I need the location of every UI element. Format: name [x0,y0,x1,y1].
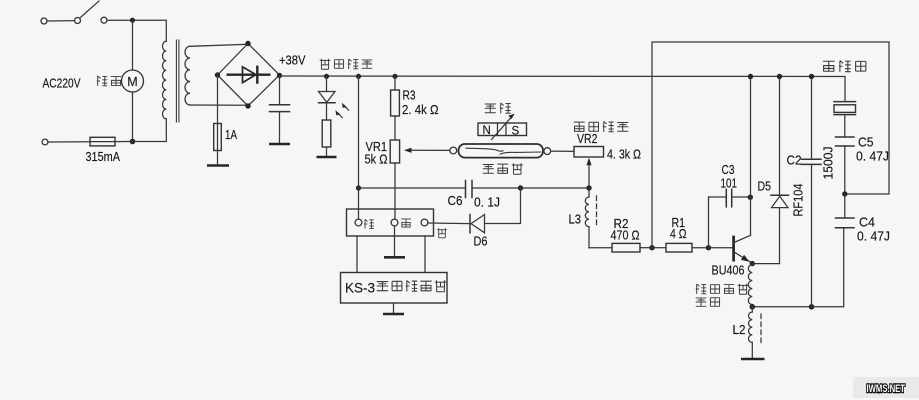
label 315mA [86,149,121,164]
node bridge left [215,72,220,77]
svg-text:1A: 1A [225,127,237,142]
label 红 [364,219,374,228]
wire secondary top to bridge [190,44,248,46]
switch S1 terminal left [41,18,47,24]
wire secondary bottom to bridge [190,104,248,106]
terminal yellow [391,219,398,226]
capacitor C4 [836,194,855,228]
label AC220V [43,76,81,91]
wire fan top [132,20,134,70]
connector block [347,209,434,236]
node C2 bottom [809,304,815,310]
resistor R3 [391,76,400,140]
core L2 dashed [760,314,762,344]
svg-text:IWMS.NET: IWMS.NET [867,383,906,395]
node coil tap [750,304,756,310]
wire bias line [359,187,466,189]
label D6 [474,234,488,249]
label 1A [225,127,237,142]
resistor LED series [322,103,331,157]
svg-text:L2: L2 [733,322,746,337]
ground fuse1A [207,164,229,167]
node emitter [750,261,755,266]
inductor L2 [749,307,753,359]
node C2 rail [809,74,814,79]
label 电源指示 [320,59,373,70]
reed switch body [459,144,544,158]
wire red to KS-3 [356,236,358,273]
label VR1 value [365,152,388,167]
transformer T1 secondary [185,46,190,105]
label R3 [403,88,416,103]
svg-text:KS-3: KS-3 [345,280,375,296]
label D5 [758,179,772,194]
reed switch lead left [450,147,457,154]
core L3 dashed [596,196,598,227]
label KS-3 [345,280,446,296]
switch S1 terminal right [101,17,107,23]
wire to transformer bottom [133,119,167,142]
label C3 [722,162,735,177]
transformer T1 primary [163,41,167,119]
wire L3 to R2 [589,247,612,249]
node base-C3 [706,245,733,250]
label R2 [614,216,629,231]
label 线圈 [696,298,720,307]
label 风扇 [97,76,122,86]
node C3-collector [748,195,753,200]
svg-text:C6: C6 [448,193,463,208]
diode inside bridge [227,66,271,84]
svg-text:VR2: VR2 [577,131,598,146]
wire feedback riser [652,42,889,248]
ground LED [317,156,337,159]
node +38V output [277,73,282,78]
label C3 value [721,176,738,191]
svg-text:N: N [483,125,491,137]
svg-text:L3: L3 [569,212,582,227]
capacitor C3 [709,189,751,247]
ground KS-3 [383,303,404,314]
potentiometer VR2 [574,147,604,189]
wire yellow to ground [394,226,396,257]
KS-3 temperature controller box [341,273,448,304]
label R1 value [670,226,687,241]
svg-text:101: 101 [721,176,738,191]
label VR2 value [607,147,641,162]
wire to transformer top [107,20,166,41]
label 蓝 [437,228,447,238]
node bridge bottom [245,103,250,108]
terminal red [355,219,362,226]
label C6 value [474,195,500,210]
node fuse-fan [115,139,135,145]
svg-text:R3: R3 [403,88,416,103]
svg-text:RF104: RF104 [791,184,806,217]
label C5 [858,135,874,150]
label 几匝空心 [696,284,749,295]
magnet float [478,114,527,140]
label 浮漂 [485,103,511,114]
capacitor C6 [466,181,521,198]
label 干簧管 [483,163,523,174]
svg-text:S: S [512,126,520,138]
resistor R1 [666,243,709,252]
label 雾量调整 [574,122,629,133]
svg-text:C4: C4 [859,215,875,230]
label R1 [672,215,686,230]
node feedback [649,245,666,250]
svg-text:0. 47J: 0. 47J [856,149,889,164]
node VR2 wiper [586,185,591,190]
svg-text:315mA: 315mA [86,149,121,164]
wire fan bottom [132,92,134,142]
node LED top [324,74,329,79]
transducer crystal [834,102,856,137]
transistor BU406 [734,235,752,262]
wire D6 branch [485,188,521,224]
svg-text:D6: D6 [474,234,488,249]
label RF104 [791,184,806,217]
label L2 [733,322,746,337]
label C2 [787,153,802,168]
ground L2 [741,358,765,361]
diode D5 [771,77,789,264]
label C4 [859,215,875,230]
label C4 value [857,229,890,244]
label R2 value [611,228,640,243]
node D5 rail [777,74,782,79]
node red-wire top [356,74,361,79]
svg-text:C2: C2 [787,153,802,168]
svg-text:C5: C5 [858,135,874,150]
label 1500J [821,147,836,180]
resistor R2 [612,243,652,252]
node D6 junction [518,185,589,190]
wire +38V rail [280,76,846,102]
capacitor C2 [802,77,822,307]
wire red branch [358,76,360,219]
wire emitter to D5 [752,263,779,265]
watermark IWMS.NET [853,377,919,398]
capacitor C5 [836,137,855,194]
svg-text:M: M [127,75,137,89]
wire collector riser [750,77,752,236]
label +38V [279,53,306,68]
node fan top [130,18,135,23]
label C5 value [856,149,889,164]
fuse 315mA [90,137,115,146]
node R3 top [392,74,397,79]
svg-text:0. 47J: 0. 47J [857,229,890,244]
bridge rectifier diamond [218,44,280,107]
diode D6 [428,215,485,233]
svg-text:5k Ω: 5k Ω [365,152,388,167]
label C6 [448,193,463,208]
wire tap to C4 [752,228,843,307]
svg-text:BU406: BU406 [712,263,745,278]
reed switch lead right [544,148,574,155]
wire AC line2 [48,141,90,143]
fuse 1A [214,75,222,165]
node C5-C4 [842,191,847,196]
svg-text:2. 4k Ω: 2. 4k Ω [402,102,439,117]
switch S1 pole [75,1,100,24]
svg-text:4 Ω: 4 Ω [670,226,687,241]
inductor L3 [585,188,589,248]
svg-text:4. 3k Ω: 4. 3k Ω [607,147,641,162]
node bridge top [245,41,250,46]
wire AC line1 top [47,20,74,22]
potentiometer VR1 [390,140,451,219]
inductor air-core coil [748,265,752,305]
node C6 left [356,185,361,190]
label VR2 [577,131,598,146]
svg-text:+38V: +38V [279,53,306,68]
label BU406 [712,263,745,278]
capacitor filter [270,76,290,144]
terminal AC bottom [42,139,48,145]
svg-text:AC220V: AC220V [43,76,81,91]
label 换能器 [823,61,866,72]
transformer T1 core [176,40,179,122]
motor M fan [122,70,144,92]
label R3 value [402,102,439,117]
svg-text:470 Ω: 470 Ω [611,228,640,243]
node collector rail [748,74,753,79]
svg-text:1500J: 1500J [821,147,836,180]
ground filter cap [269,143,290,146]
svg-text:0. 1J: 0. 1J [474,195,500,210]
label 黄 [401,219,411,227]
terminal blue [421,219,428,226]
wire blue to KS-3 [424,236,426,273]
svg-text:D5: D5 [758,179,772,194]
label L3 [569,212,582,227]
LED power indicator [319,76,349,117]
label VR1 [366,139,388,154]
ground yellow [384,256,405,259]
